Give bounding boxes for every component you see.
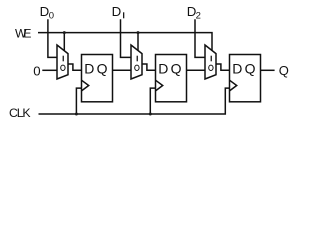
mux U1 (57, 45, 68, 79)
junction dot CLK-FF2 (149, 113, 152, 116)
wire D1 to U2 input 1 (121, 19, 132, 57)
svg-text:WE: WE (15, 26, 31, 40)
wire FF2 Q to U3 input 0 (187, 69, 206, 71)
svg-text:CLK: CLK (9, 106, 31, 120)
svg-text:D: D (158, 60, 168, 76)
svg-text:Q: Q (279, 63, 289, 78)
wire D2 to U3 input 1 (195, 19, 205, 57)
svg-text:Q: Q (97, 60, 108, 76)
svg-text:Q: Q (245, 60, 256, 76)
wire constant 0 to U1 input 0 (42, 69, 57, 71)
junction dot WE-U1 (63, 31, 66, 34)
svg-text:D: D (84, 60, 94, 76)
wire CLK tap to FF1 (76, 88, 81, 114)
svg-text:Q: Q (171, 60, 182, 76)
wire U3 output to FF3 D (216, 64, 230, 70)
svg-text:0: 0 (33, 63, 40, 78)
wire CLK tap to FF2 (150, 88, 155, 114)
flip-flop FF3 (230, 55, 261, 102)
flip-flop FF2 (156, 55, 187, 102)
mux U1 label 1 (63, 56, 64, 62)
wire U2 output to FF2 D (142, 64, 156, 70)
svg-text:D: D (232, 60, 242, 76)
flip-flop FF1 clock triangle (82, 80, 89, 91)
mux U2 (131, 45, 142, 79)
junction dot CLK-FF1 (75, 113, 78, 116)
wire WE bus (38, 33, 212, 51)
flip-flop FF3 clock triangle (230, 80, 237, 91)
wire CLK bus (39, 88, 230, 114)
svg-text:0: 0 (49, 10, 54, 21)
wire D0 to U1 input 1 (48, 19, 57, 57)
wire WE tap to U2 select (137, 33, 139, 51)
wire FF1 Q to U2 input 0 (113, 69, 132, 71)
mux U2 label 1 (137, 56, 138, 62)
mux U1 label 0 (61, 65, 65, 70)
mux U3 label 0 (209, 65, 213, 70)
mux U2 label 0 (135, 65, 139, 70)
svg-text:D: D (40, 4, 50, 19)
wire FF3 Q to output Q (261, 69, 275, 71)
wire U1 output to FF1 D (68, 64, 82, 70)
mux U3 label 1 (211, 56, 212, 62)
svg-text:D: D (112, 4, 122, 19)
flip-flop FF2 clock triangle (156, 80, 163, 91)
wire WE tap to U1 select (63, 33, 65, 51)
mux U3 (205, 45, 216, 79)
flip-flop FF1 (82, 55, 113, 102)
junction dot WE-U2 (137, 31, 140, 34)
svg-text:2: 2 (196, 10, 201, 21)
